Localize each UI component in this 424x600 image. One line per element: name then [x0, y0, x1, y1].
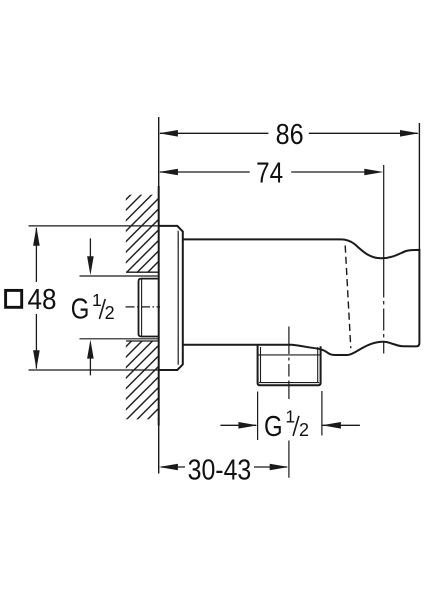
wall hole edge lines — [126, 272, 159, 341]
svg-text:1: 1 — [92, 290, 102, 310]
dimension 86 — [159, 119, 419, 151]
wall face line — [158, 117, 160, 474]
svg-text:86: 86 — [276, 119, 304, 151]
flange — [159, 226, 183, 370]
svg-text:2: 2 — [105, 303, 115, 323]
socket dimension extension lines — [80, 276, 159, 339]
svg-text:1: 1 — [285, 407, 295, 427]
outlet G 1/2 dimension — [220, 391, 360, 443]
holder cone centerline — [383, 165, 385, 354]
body outline — [183, 239, 420, 355]
socket thread fitting — [139, 279, 159, 337]
dimension 74 — [159, 158, 383, 190]
dimension 48 extension lines — [29, 226, 159, 370]
dimension 30-43 — [159, 455, 289, 487]
svg-text:74: 74 — [256, 158, 283, 190]
svg-text:48: 48 — [28, 284, 57, 316]
hidden edge dashed — [345, 246, 351, 349]
right extension line — [418, 123, 420, 250]
svg-text:30-43: 30-43 — [188, 455, 252, 487]
nipple centerline — [288, 327, 290, 478]
socket centerline — [126, 306, 161, 308]
svg-text:G: G — [71, 293, 90, 325]
outlet nipple — [258, 345, 321, 386]
svg-text:2: 2 — [299, 420, 309, 440]
dimension 48 — [6, 227, 57, 369]
socket G 1/2 dimension — [71, 238, 115, 375]
wall hatching — [126, 195, 159, 420]
svg-text:G: G — [264, 411, 283, 443]
